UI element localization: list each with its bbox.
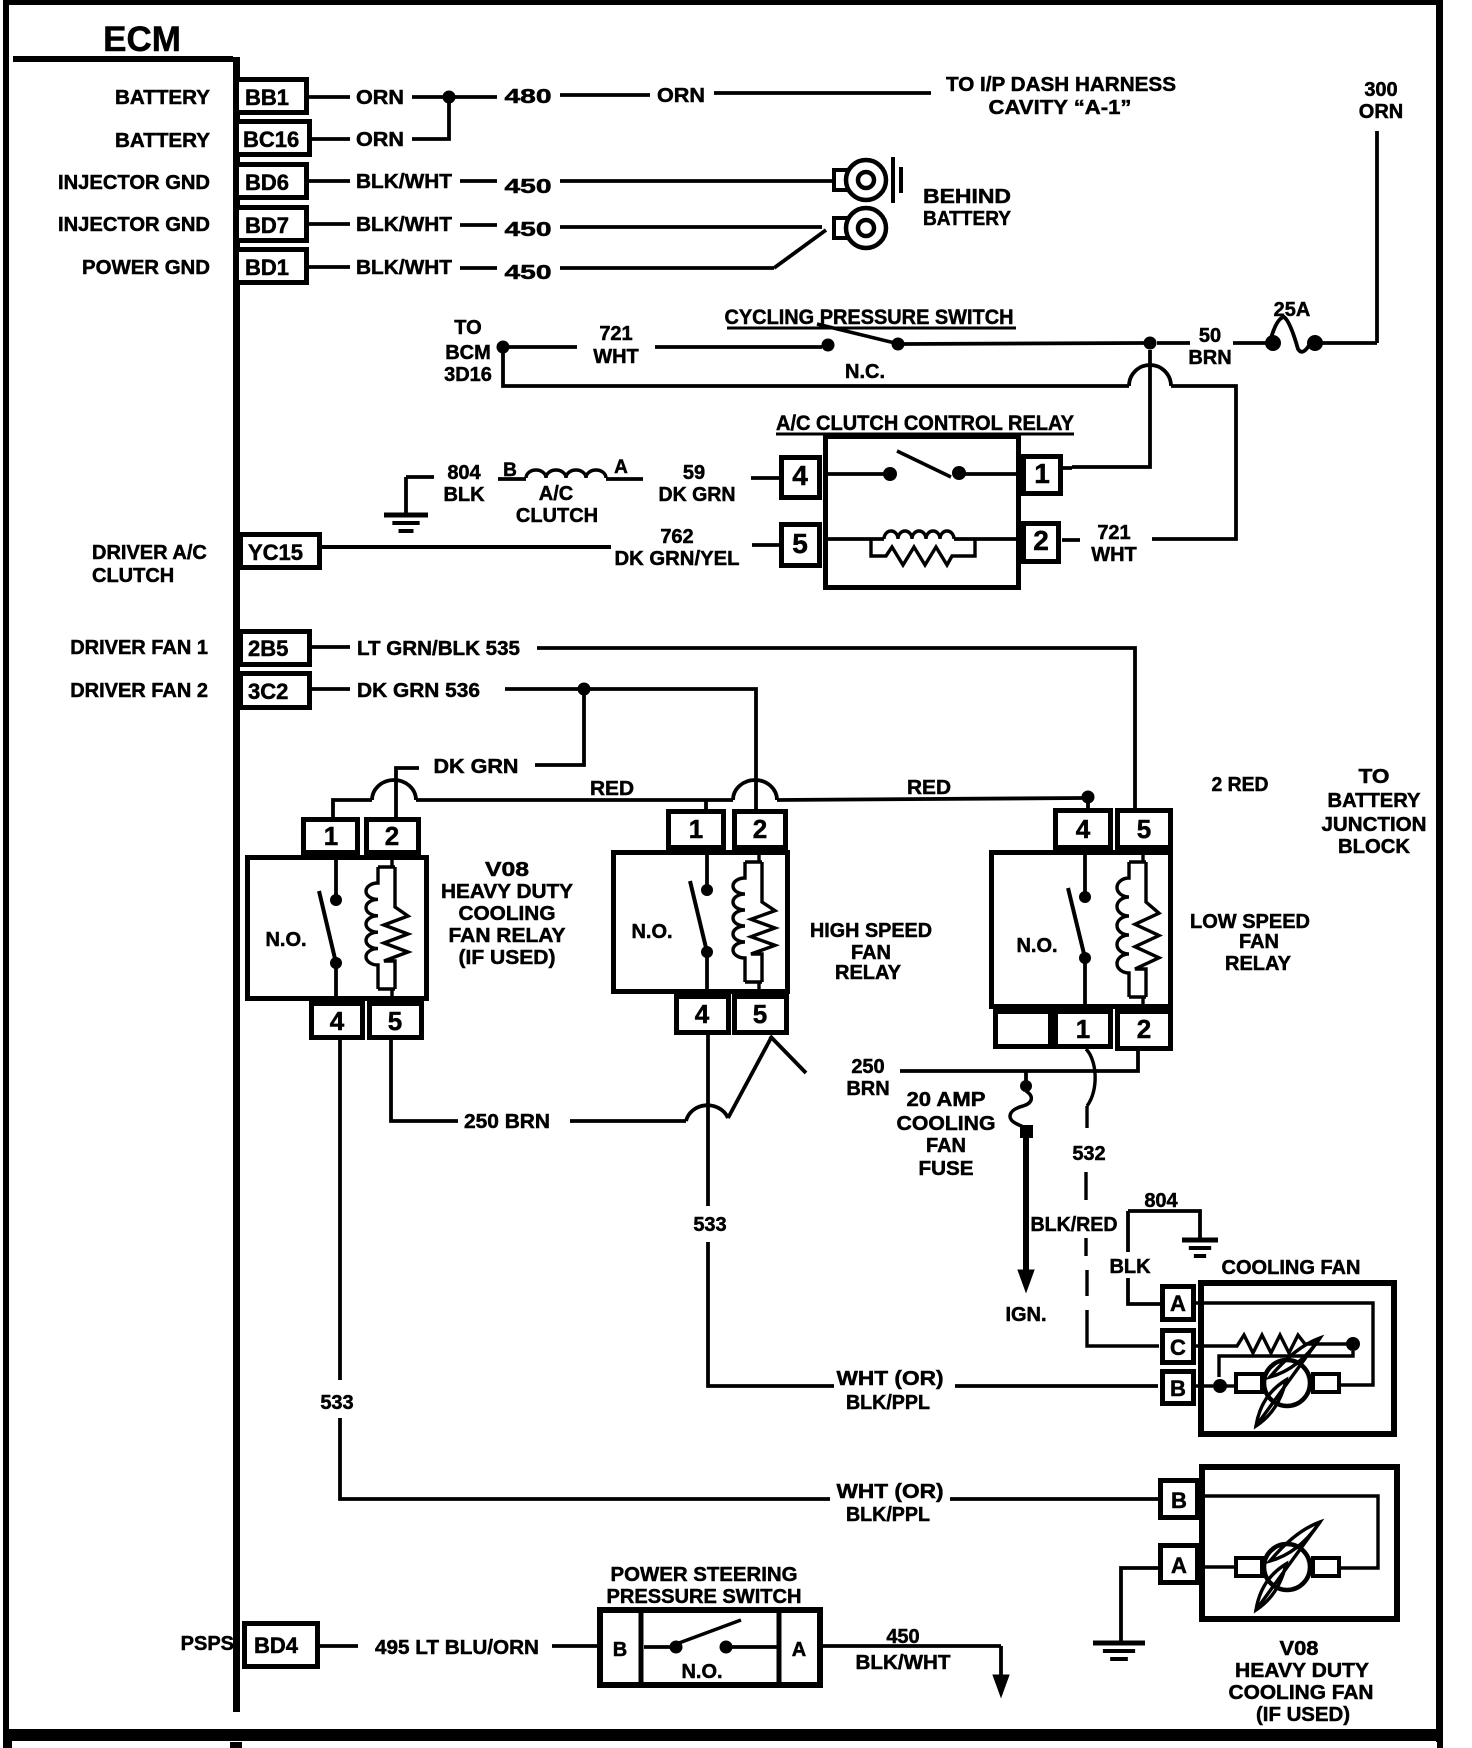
relay K2 pin 2 xyxy=(367,820,419,853)
ECM pin BB1 (BATTERY) xyxy=(115,80,307,113)
relay K4 coil xyxy=(1117,850,1159,1009)
relay K3 body xyxy=(614,853,788,992)
svg-text:BLK/PPL: BLK/PPL xyxy=(846,1504,930,1526)
svg-text:A: A xyxy=(1170,1291,1186,1316)
svg-text:BCM: BCM xyxy=(445,342,491,364)
ECM pin YC15 (DRIVER A/C CLUTCH) xyxy=(92,535,320,588)
label TO I/P DASH HARNESS CAVITY A-1 xyxy=(946,74,1176,119)
relay K3 pin 4 xyxy=(677,997,729,1033)
svg-text:N.C.: N.C. xyxy=(845,361,885,383)
fuse 20 AMP COOLING FAN FUSE xyxy=(1010,1071,1033,1138)
heavy duty fan M2 body xyxy=(1202,1467,1397,1619)
svg-text:LOW SPEED: LOW SPEED xyxy=(1190,911,1310,933)
svg-text:FUSE: FUSE xyxy=(919,1158,974,1180)
relay K2 coil xyxy=(366,855,408,1001)
relay K2 body xyxy=(248,858,427,999)
svg-text:DK GRN 536: DK GRN 536 xyxy=(357,680,480,702)
svg-text:BLK/WHT: BLK/WHT xyxy=(356,171,452,193)
svg-text:FAN RELAY: FAN RELAY xyxy=(449,925,567,947)
label HIGH SPEED FAN RELAY xyxy=(810,920,932,984)
svg-text:5: 5 xyxy=(1137,814,1151,844)
wire fuse to 300 ORN feed xyxy=(1322,341,1377,345)
svg-text:TO: TO xyxy=(454,317,481,339)
label V08 HEAVY DUTY COOLING FAN RELAY (IF USED) xyxy=(441,859,574,969)
svg-text:RED: RED xyxy=(907,777,951,799)
svg-text:N.O.: N.O. xyxy=(265,929,306,951)
wire 533 from relay K3 pin 4 to cooling fan xyxy=(693,1035,1158,1414)
svg-text:POWER GND: POWER GND xyxy=(82,257,210,279)
svg-text:3D16: 3D16 xyxy=(444,364,492,386)
svg-text:CAVITY “A-1”: CAVITY “A-1” xyxy=(989,97,1132,119)
label LOW SPEED FAN RELAY xyxy=(1190,911,1310,975)
wire 533 from relay K2 pin 4 to heavy duty fan xyxy=(320,1040,1158,1526)
svg-text:BRN: BRN xyxy=(846,1078,889,1100)
svg-text:4: 4 xyxy=(695,999,710,1029)
svg-text:V08: V08 xyxy=(1280,1638,1319,1660)
relay K1 pin 1 xyxy=(1024,457,1061,494)
svg-text:B: B xyxy=(1171,1488,1187,1513)
relay K3 pin 1 xyxy=(669,812,724,848)
cooling fan M1 motor xyxy=(1236,1338,1339,1426)
grommet behind battery (upper) xyxy=(834,157,901,203)
junction node 480 xyxy=(443,91,456,104)
svg-text:5: 5 xyxy=(388,1006,402,1036)
node 50 BRN junction xyxy=(1144,337,1157,350)
wire 762 DK GRN/YEL from YC15 to relay K1 pin 5 xyxy=(322,526,779,570)
svg-text:FAN: FAN xyxy=(1239,931,1279,953)
wire 450 BLK/WHT from BD6 xyxy=(309,171,832,198)
svg-text:BLK/WHT: BLK/WHT xyxy=(856,1652,951,1674)
svg-text:4: 4 xyxy=(1076,814,1091,844)
cooling fan M1 terminal C xyxy=(1163,1331,1194,1363)
ground G3 at heavy duty fan xyxy=(1093,1568,1158,1659)
svg-text:COOLING: COOLING xyxy=(459,903,556,925)
relay K2 pin 4 xyxy=(312,1004,363,1038)
svg-text:50: 50 xyxy=(1199,325,1221,347)
svg-text:DRIVER FAN 1: DRIVER FAN 1 xyxy=(70,637,208,659)
power steering pressure switch N.O. contacts xyxy=(644,1620,779,1683)
svg-text:FAN: FAN xyxy=(926,1135,966,1157)
wire 721 WHT from BCM to switch xyxy=(509,323,822,368)
svg-text:BLK/WHT: BLK/WHT xyxy=(356,214,452,236)
svg-text:DK GRN: DK GRN xyxy=(434,756,519,778)
svg-text:2: 2 xyxy=(1137,1014,1151,1044)
wire BLK/RED to ignition xyxy=(1005,1138,1046,1326)
svg-text:ORN: ORN xyxy=(356,129,404,151)
wire ORN from BB1 xyxy=(309,87,443,109)
relay K1 coil with resistor xyxy=(828,531,1018,565)
svg-text:762: 762 xyxy=(660,526,693,548)
ECM pin BD6 (INJECTOR GND) xyxy=(58,165,307,198)
svg-text:532: 532 xyxy=(1072,1143,1105,1165)
relay K1 switch contacts xyxy=(828,451,1018,481)
wire LT GRN/BLK 535 to relay K4 pin 5 xyxy=(312,638,1135,810)
svg-text:1: 1 xyxy=(324,821,338,851)
svg-text:804: 804 xyxy=(1144,1190,1178,1212)
node RED at relay K4 pin 4 xyxy=(1082,791,1095,815)
svg-text:BATTERY: BATTERY xyxy=(1328,790,1422,812)
relay K1 body xyxy=(826,437,1019,588)
label V08 HEAVY DUTY COOLING FAN (IF USED) xyxy=(1229,1638,1374,1726)
svg-text:BD1: BD1 xyxy=(245,255,289,280)
svg-text:DK GRN/YEL: DK GRN/YEL xyxy=(615,548,740,570)
svg-text:PSPS: PSPS xyxy=(181,1633,234,1655)
svg-text:COOLING FAN: COOLING FAN xyxy=(1222,1257,1361,1279)
svg-text:N.O.: N.O. xyxy=(631,921,672,943)
svg-text:721: 721 xyxy=(599,323,632,345)
relay K4 body xyxy=(992,853,1171,1007)
ECM pin BD7 (INJECTOR GND) xyxy=(58,208,307,241)
svg-text:2 RED: 2 RED xyxy=(1212,774,1269,796)
svg-text:N.O.: N.O. xyxy=(681,1661,722,1683)
svg-text:721: 721 xyxy=(1097,522,1130,544)
svg-text:A: A xyxy=(792,1639,806,1661)
svg-text:59: 59 xyxy=(683,462,705,484)
svg-text:BATTERY: BATTERY xyxy=(923,208,1012,230)
svg-text:HIGH SPEED: HIGH SPEED xyxy=(810,920,932,942)
wire relay K1 pin 1 to 50 BRN junction xyxy=(1063,350,1150,468)
label TO BCM 3D16 xyxy=(444,317,492,386)
svg-text:RELAY: RELAY xyxy=(835,962,902,984)
svg-text:IGN.: IGN. xyxy=(1005,1304,1046,1326)
svg-text:BLK: BLK xyxy=(443,484,485,506)
svg-text:INJECTOR GND: INJECTOR GND xyxy=(58,172,210,194)
svg-text:300: 300 xyxy=(1364,79,1397,101)
power steering pressure switch body xyxy=(600,1610,820,1685)
fuse 25A xyxy=(1265,299,1323,352)
svg-text:25A: 25A xyxy=(1274,299,1311,321)
ECM pin BC16 (BATTERY) xyxy=(115,122,310,155)
ECM pin BD1 (POWER GND) xyxy=(82,250,307,283)
svg-text:CLUTCH: CLUTCH xyxy=(92,565,174,587)
svg-text:INJECTOR GND: INJECTOR GND xyxy=(58,214,210,236)
svg-text:BATTERY: BATTERY xyxy=(115,130,211,152)
svg-text:20 AMP: 20 AMP xyxy=(907,1089,986,1111)
power steering pressure switch label xyxy=(607,1564,802,1608)
wire DK GRN 536 from 3C2 xyxy=(312,680,584,702)
svg-text:A/C: A/C xyxy=(539,483,573,505)
relay K4 N.O. switch xyxy=(1016,850,1091,1009)
relay K3 pin 2 xyxy=(735,812,786,848)
svg-text:COOLING FAN: COOLING FAN xyxy=(1229,1682,1374,1704)
svg-text:WHT: WHT xyxy=(593,346,639,368)
relay K2 pin 5 xyxy=(370,1004,422,1038)
wire switch to junction 50 BRN xyxy=(904,343,1144,344)
svg-text:C: C xyxy=(1170,1335,1186,1360)
svg-text:YC15: YC15 xyxy=(248,540,303,565)
wire 495 LT BLU/ORN xyxy=(320,1637,597,1659)
svg-text:4: 4 xyxy=(792,460,808,491)
wire 480 ORN to I/P dash harness xyxy=(455,85,931,108)
label 804 BLK xyxy=(443,462,485,506)
cooling fan M1 body xyxy=(1201,1283,1394,1434)
svg-text:804: 804 xyxy=(447,462,481,484)
grommet behind battery (lower) xyxy=(834,208,886,248)
relay K4 pin 1 xyxy=(1056,1012,1111,1047)
wire 450 BLK/WHT from BD1 xyxy=(309,230,826,284)
svg-text:BB1: BB1 xyxy=(245,85,289,110)
relay K2 N.O. switch xyxy=(265,855,342,1001)
svg-text:5: 5 xyxy=(753,999,767,1029)
svg-text:RELAY: RELAY xyxy=(1225,953,1292,975)
svg-text:COOLING: COOLING xyxy=(897,1113,996,1135)
svg-text:WHT: WHT xyxy=(1091,544,1137,566)
svg-text:CLUTCH: CLUTCH xyxy=(516,505,598,527)
svg-text:250 BRN: 250 BRN xyxy=(464,1111,550,1133)
relay K4 empty terminal xyxy=(996,1012,1051,1047)
svg-text:B: B xyxy=(613,1639,627,1661)
svg-text:450: 450 xyxy=(505,262,552,284)
cycling pressure switch label xyxy=(725,306,1017,329)
svg-text:533: 533 xyxy=(693,1214,726,1236)
svg-text:PRESSURE SWITCH: PRESSURE SWITCH xyxy=(607,1586,802,1608)
svg-text:TO I/P DASH HARNESS: TO I/P DASH HARNESS xyxy=(946,74,1176,96)
svg-text:BLK: BLK xyxy=(1109,1256,1151,1278)
heavy duty fan M2 motor xyxy=(1236,1522,1339,1610)
relay K3 N.O. switch xyxy=(631,850,713,994)
svg-text:BD6: BD6 xyxy=(245,170,289,195)
svg-text:BLOCK: BLOCK xyxy=(1338,836,1411,858)
ECM pin BD4 (PSPS) xyxy=(181,1624,318,1667)
svg-text:N.O.: N.O. xyxy=(1016,935,1057,957)
relay K3 coil xyxy=(733,850,775,994)
relay K1 A/C CLUTCH CONTROL RELAY label xyxy=(776,412,1074,435)
wire RED bus from relay K2 pin 1 xyxy=(333,777,1082,818)
svg-text:450: 450 xyxy=(505,219,552,241)
svg-text:450: 450 xyxy=(505,176,552,198)
svg-text:2: 2 xyxy=(1033,525,1049,556)
svg-text:ORN: ORN xyxy=(657,85,705,107)
svg-text:A: A xyxy=(1171,1553,1187,1578)
svg-text:DRIVER A/C: DRIVER A/C xyxy=(92,542,207,564)
svg-text:1: 1 xyxy=(689,814,703,844)
relay K4 pin 5 xyxy=(1118,811,1171,848)
ground G1 (804 BLK) xyxy=(384,477,434,531)
wire ORN from BC16 xyxy=(312,103,449,151)
heavy duty fan M2 terminal B xyxy=(1161,1481,1198,1518)
svg-text:HEAVY DUTY: HEAVY DUTY xyxy=(1235,1660,1370,1682)
wire 450 BLK/WHT output xyxy=(823,1626,1009,1697)
wire DK GRN branch to relay K2 pin 2 xyxy=(396,695,584,818)
svg-text:A: A xyxy=(614,457,628,478)
wire N.C. return to relay pin 2 (721 WHT) xyxy=(503,353,1236,566)
relay K1 pin 5 xyxy=(782,525,820,566)
svg-text:(IF USED): (IF USED) xyxy=(459,947,556,969)
svg-text:WHT (OR): WHT (OR) xyxy=(837,1481,944,1503)
svg-text:POWER STEERING: POWER STEERING xyxy=(611,1564,798,1586)
ECM connector spine xyxy=(233,57,240,1712)
heavy duty fan M2 internal wiring xyxy=(1200,1496,1378,1568)
svg-text:ORN: ORN xyxy=(1359,101,1403,123)
ground G2 (804 BLK) at cooling fan xyxy=(1109,1190,1218,1304)
svg-text:533: 533 xyxy=(320,1392,353,1414)
svg-text:2: 2 xyxy=(385,821,399,851)
svg-text:TO: TO xyxy=(1359,766,1390,788)
cycling pressure switch N.C. contacts xyxy=(817,324,905,383)
label BEHIND BATTERY xyxy=(923,186,1012,230)
svg-text:1: 1 xyxy=(1076,1014,1090,1044)
svg-text:DK GRN: DK GRN xyxy=(659,484,736,506)
heavy duty fan M2 terminal A xyxy=(1161,1546,1198,1583)
svg-text:FAN: FAN xyxy=(851,942,891,964)
svg-text:250: 250 xyxy=(851,1056,884,1078)
svg-text:BD7: BD7 xyxy=(245,213,289,238)
cooling fan M1 terminal B xyxy=(1163,1372,1194,1404)
svg-text:1: 1 xyxy=(1034,458,1050,489)
svg-text:BLK/RED: BLK/RED xyxy=(1031,1214,1118,1236)
svg-text:3C2: 3C2 xyxy=(248,679,288,704)
svg-text:4: 4 xyxy=(330,1006,345,1036)
cooling fan M1 terminal A xyxy=(1163,1287,1194,1320)
svg-text:BEHIND: BEHIND xyxy=(923,186,1011,208)
svg-text:BC16: BC16 xyxy=(243,127,299,152)
svg-text:B: B xyxy=(1170,1376,1186,1401)
svg-text:495 LT BLU/ORN: 495 LT BLU/ORN xyxy=(375,1637,539,1659)
wire 300 ORN battery feed xyxy=(1359,79,1403,343)
svg-text:CYCLING PRESSURE SWITCH: CYCLING PRESSURE SWITCH xyxy=(725,306,1014,329)
relay K3 pin 5 xyxy=(735,997,787,1033)
wire 59 DK GRN to relay K1 pin 4 xyxy=(659,462,780,506)
svg-text:ECM: ECM xyxy=(103,20,181,59)
wire 250 BRN from relay K2 pin 5 to relay K3 pin 5 xyxy=(391,1038,771,1133)
label TO BATTERY JUNCTION BLOCK xyxy=(1322,766,1427,858)
svg-text:480: 480 xyxy=(505,86,552,108)
svg-text:5: 5 xyxy=(792,528,808,559)
svg-text:HEAVY DUTY: HEAVY DUTY xyxy=(441,881,574,903)
svg-text:450: 450 xyxy=(886,1626,919,1648)
relay K1 pin 4 xyxy=(782,458,820,498)
ECM box line xyxy=(13,56,233,62)
relay K1 pin 2 xyxy=(1024,524,1059,562)
A/C clutch coil xyxy=(498,457,643,527)
wire 532 from relay K4 pin 1 to cooling fan C xyxy=(1031,1049,1160,1346)
svg-text:A/C CLUTCH CONTROL RELAY: A/C CLUTCH CONTROL RELAY xyxy=(776,412,1074,435)
svg-text:2: 2 xyxy=(753,814,767,844)
svg-text:DRIVER FAN 2: DRIVER FAN 2 xyxy=(70,680,208,702)
node BCM junction xyxy=(497,341,510,354)
svg-text:BD4: BD4 xyxy=(254,1633,299,1658)
svg-text:RED: RED xyxy=(590,778,634,800)
wire DK GRN 536 to relay K3 pin 2 xyxy=(590,689,756,810)
relay K2 pin 1 xyxy=(304,820,358,853)
svg-text:BLK/WHT: BLK/WHT xyxy=(356,257,452,279)
wire 450 BLK/WHT from BD7 xyxy=(309,214,822,241)
svg-text:BATTERY: BATTERY xyxy=(115,87,211,109)
svg-text:BLK/PPL: BLK/PPL xyxy=(846,1392,930,1414)
label 20 AMP COOLING FAN FUSE xyxy=(897,1089,996,1180)
relay K4 pin 2 xyxy=(1118,1012,1171,1049)
svg-text:LT GRN/BLK 535: LT GRN/BLK 535 xyxy=(357,638,520,660)
wire 250 BRN from relay K3 pin 5 to relay K4 pin 2 xyxy=(770,1036,1138,1100)
ECM pin 3C2 (DRIVER FAN 2) xyxy=(70,674,309,708)
svg-text:(IF USED): (IF USED) xyxy=(1256,1704,1350,1726)
svg-text:V08: V08 xyxy=(485,859,529,881)
svg-text:ORN: ORN xyxy=(356,87,404,109)
svg-text:2B5: 2B5 xyxy=(248,636,288,661)
ECM pin 2B5 (DRIVER FAN 1) xyxy=(70,632,309,665)
svg-text:BRN: BRN xyxy=(1188,347,1231,369)
svg-text:JUNCTION: JUNCTION xyxy=(1322,814,1427,836)
wire 50 BRN to fuse xyxy=(1157,325,1266,369)
relay K4 pin 4 xyxy=(1056,811,1111,848)
svg-text:WHT (OR): WHT (OR) xyxy=(837,1368,944,1390)
cooling fan M1 internal wiring and resistor xyxy=(1196,1303,1373,1393)
node DK GRN junction xyxy=(578,683,591,696)
